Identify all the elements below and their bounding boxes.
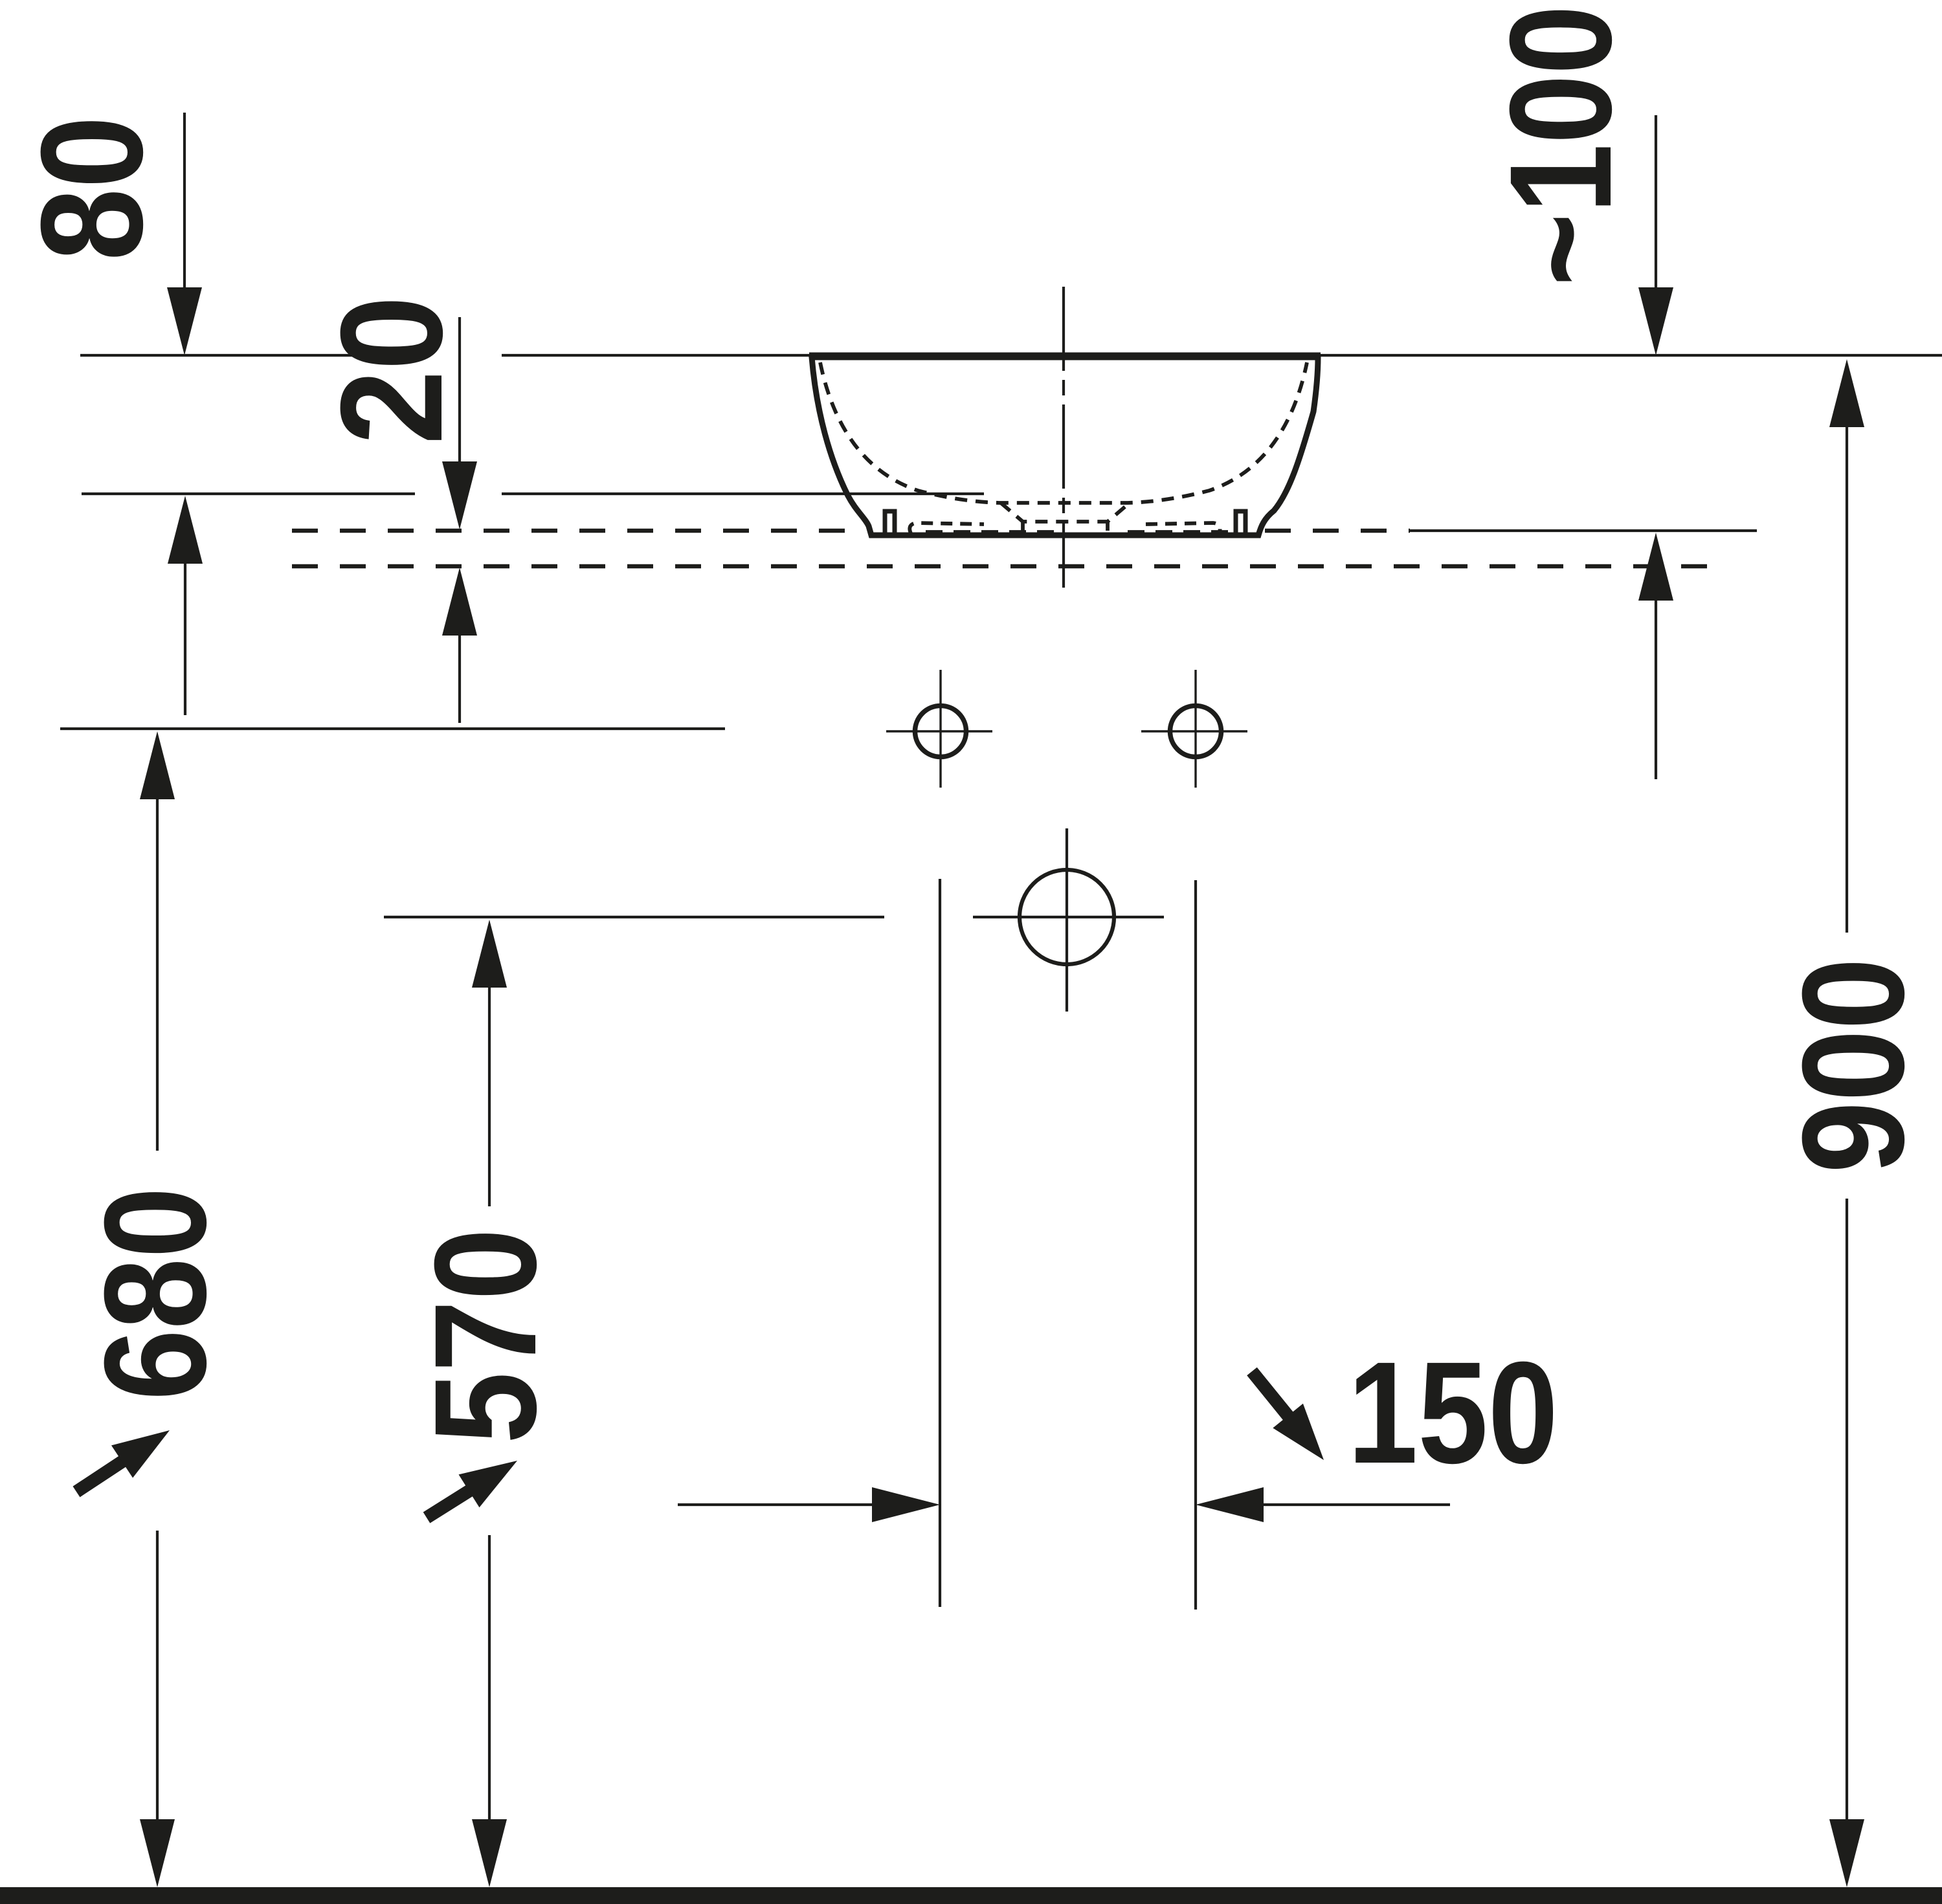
svg-text:680: 680	[74, 1187, 236, 1400]
svg-text:900: 900	[1772, 958, 1934, 1173]
svg-text:150: 150	[1348, 1332, 1558, 1494]
svg-text:~100: ~100	[1480, 5, 1642, 286]
svg-text:20: 20	[311, 296, 473, 445]
svg-text:80: 80	[11, 116, 173, 261]
svg-text:570: 570	[405, 1228, 566, 1444]
